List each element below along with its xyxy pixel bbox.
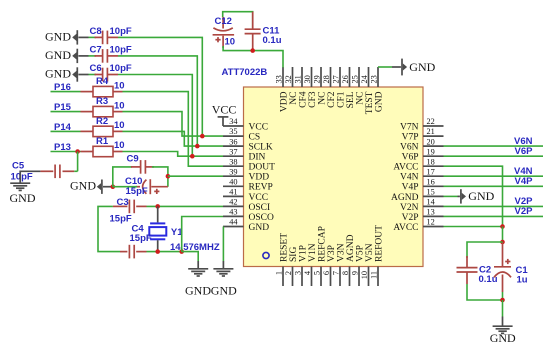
svg-text:29: 29 — [313, 75, 322, 83]
resistor R2 — [81, 130, 94, 132]
pin 26 stub (top) — [349, 67, 351, 87]
svg-text:15: 15 — [427, 188, 435, 197]
svg-text:V7P: V7P — [402, 133, 419, 143]
junction OSCO — [179, 249, 184, 254]
pin 10 stub (bottom) — [368, 267, 370, 287]
ground GND (AGND, bar) — [458, 195, 460, 197]
capacitor C5 — [74, 170, 77, 172]
svg-text:38: 38 — [229, 157, 237, 166]
svg-text:3: 3 — [294, 271, 303, 275]
wire AVCC to ground — [502, 300, 504, 317]
pin 3 stub (bottom) — [301, 267, 303, 287]
svg-text:V1P: V1P — [298, 245, 308, 262]
svg-text:0.1u: 0.1u — [263, 35, 282, 46]
svg-text:REVP: REVP — [249, 183, 273, 193]
svg-text:V4P: V4P — [515, 176, 534, 187]
wire C2 branch top — [467, 242, 503, 258]
pin 19 stub (right) — [423, 155, 444, 157]
junction C11 bottom — [250, 48, 255, 53]
svg-text:GND: GND — [211, 284, 237, 298]
svg-text:NC: NC — [317, 92, 327, 105]
wire C7 to chip column — [118, 56, 197, 146]
wire net V6P (pin 19) — [444, 155, 543, 157]
svg-text:1: 1 — [275, 271, 284, 275]
svg-text:15pF: 15pF — [126, 186, 148, 197]
svg-text:V3P: V3P — [327, 245, 337, 262]
wire net V6N (pin 20) — [444, 145, 543, 147]
pin 36 stub (left) — [223, 145, 244, 147]
ground GND (bottom right, earth) — [502, 317, 504, 327]
svg-text:28: 28 — [322, 75, 331, 83]
svg-text:ATT7022B: ATT7022B — [222, 67, 268, 78]
svg-text:44: 44 — [229, 218, 238, 227]
svg-text:14: 14 — [427, 198, 436, 207]
svg-text:REFOUT: REFOUT — [374, 225, 384, 262]
svg-text:V6N: V6N — [400, 143, 419, 153]
svg-text:12: 12 — [427, 218, 435, 227]
port P15 — [51, 111, 81, 113]
wire AVCC pin 18 down to pin 12 — [444, 166, 503, 226]
svg-text:19: 19 — [427, 147, 435, 156]
svg-text:35: 35 — [229, 127, 237, 136]
wire C3 to pin 42 (OSCI) — [147, 205, 224, 207]
junction DIN/C6 — [190, 154, 195, 159]
ground GND1 (below crystal, earth) — [197, 261, 199, 269]
junction CS/C8 — [200, 134, 205, 139]
svg-text:GND: GND — [249, 223, 270, 233]
svg-text:V7N: V7N — [400, 122, 419, 132]
pin 4 stub (bottom) — [311, 267, 313, 287]
wire loop left and top (to C9) — [113, 167, 132, 187]
svg-text:10: 10 — [114, 120, 125, 131]
svg-text:DOUT: DOUT — [249, 163, 276, 173]
svg-text:20: 20 — [427, 137, 435, 146]
capacitor C8 — [95, 36, 103, 38]
svg-text:VCC: VCC — [249, 122, 269, 132]
wire C8 to chip column — [118, 37, 202, 136]
wire C12-C11 top rail — [223, 12, 253, 29]
svg-text:VDD: VDD — [249, 173, 270, 183]
capacitor C2 — [466, 256, 468, 267]
capacitor C7 — [95, 55, 103, 57]
wire net V2P (pin 13) — [444, 215, 543, 217]
svg-text:SIG: SIG — [289, 247, 299, 262]
svg-text:R4: R4 — [96, 76, 109, 87]
svg-text:40: 40 — [229, 178, 237, 187]
svg-text:C8: C8 — [90, 26, 102, 37]
wire GND to C6 — [89, 74, 97, 76]
svg-text:16: 16 — [427, 178, 435, 187]
svg-text:SCLK: SCLK — [249, 143, 273, 153]
pin 5 stub (bottom) — [320, 267, 322, 287]
pin 41 stub (left) — [223, 195, 244, 197]
svg-text:GND: GND — [374, 91, 384, 112]
svg-text:43: 43 — [229, 208, 237, 217]
pin 2 stub (bottom) — [292, 267, 294, 287]
IC U1 ATT7022B body — [244, 87, 424, 267]
port P13 — [51, 151, 81, 153]
svg-text:10pF: 10pF — [110, 44, 132, 55]
pin 23 stub (top) — [377, 67, 379, 87]
svg-text:GND: GND — [10, 191, 36, 205]
svg-text:AGND: AGND — [346, 234, 356, 262]
svg-text:0.1u: 0.1u — [479, 274, 498, 285]
junction SCLK/C7 — [195, 144, 200, 149]
svg-text:V1N: V1N — [308, 243, 318, 262]
svg-text:5: 5 — [313, 271, 322, 275]
svg-text:10pF: 10pF — [110, 26, 132, 37]
svg-text:GND: GND — [185, 284, 211, 298]
svg-text:V4N: V4N — [400, 173, 419, 183]
pin 22 stub (right) — [423, 125, 444, 127]
svg-text:VCC: VCC — [249, 193, 269, 203]
svg-text:RESET: RESET — [279, 233, 289, 262]
svg-text:25: 25 — [351, 75, 360, 83]
svg-text:31: 31 — [294, 75, 303, 83]
pin 9 stub (bottom) — [358, 267, 360, 287]
wire net V2P (pin 14) — [444, 205, 543, 207]
wire pin 44 (GND) down — [222, 227, 224, 262]
svg-text:11: 11 — [370, 271, 379, 279]
junction P13/C5 — [75, 149, 80, 154]
svg-text:C5: C5 — [12, 160, 25, 171]
pin 7 stub (bottom) — [339, 267, 341, 287]
pin 17 stub (right) — [423, 175, 444, 177]
junction OSCI/crystal — [155, 204, 160, 209]
crystal Y1 — [157, 206, 159, 222]
wire pin 12 to AVCC line — [444, 226, 503, 228]
capacitor C10 (polarized) — [151, 186, 168, 188]
svg-text:VDD: VDD — [279, 91, 289, 112]
pin 39 stub (left) — [223, 175, 244, 177]
ground GND (below C5, earth) — [10, 182, 30, 184]
svg-text:9: 9 — [351, 271, 360, 275]
svg-text:V4P: V4P — [402, 183, 419, 193]
junction AVCC pin 12 — [500, 224, 505, 229]
wire C5 to ground — [20, 171, 40, 183]
wire pin 15 (AGND) to GND — [444, 195, 458, 197]
svg-text:37: 37 — [229, 147, 237, 156]
svg-text:10pF: 10pF — [11, 172, 33, 183]
pin 42 stub (left) — [223, 205, 244, 207]
svg-text:GND: GND — [45, 48, 71, 62]
pin 29 stub (top) — [320, 67, 322, 87]
wire AVCC down to C1 — [502, 227, 504, 244]
junction GND/C10 loop — [111, 184, 116, 189]
svg-text:VCC: VCC — [212, 102, 237, 116]
svg-text:6: 6 — [322, 271, 331, 275]
resistor R3 — [81, 111, 94, 113]
svg-text:V5P: V5P — [355, 245, 365, 262]
svg-text:GND: GND — [490, 331, 516, 345]
svg-text:8: 8 — [341, 271, 350, 275]
pin-1 orientation dot — [263, 252, 269, 258]
wire loop to pin 39 (VDD) — [168, 175, 223, 177]
svg-text:AGND: AGND — [391, 193, 419, 203]
svg-text:GND: GND — [468, 189, 494, 203]
pin 27 stub (top) — [339, 67, 341, 87]
svg-text:10: 10 — [114, 140, 125, 151]
capacitor C12 (polarized) — [222, 17, 224, 29]
svg-text:C9: C9 — [127, 154, 139, 165]
capacitor C3 — [113, 205, 128, 207]
svg-text:22: 22 — [427, 117, 435, 126]
port P16 — [51, 91, 81, 93]
svg-text:REFCAP: REFCAP — [317, 226, 327, 262]
ground GND (C8 row, bar) — [76, 30, 78, 44]
svg-text:2: 2 — [284, 271, 293, 275]
svg-text:GND: GND — [45, 67, 71, 81]
wire pin 23 to GND — [378, 66, 392, 68]
svg-text:DIN: DIN — [249, 153, 266, 163]
svg-text:R1: R1 — [96, 136, 109, 147]
svg-text:10: 10 — [114, 80, 125, 91]
pin 28 stub (top) — [330, 67, 332, 87]
svg-text:R2: R2 — [96, 116, 108, 127]
svg-text:OSCO: OSCO — [249, 213, 274, 223]
pin 44 stub (left) — [223, 226, 244, 228]
svg-text:V5N: V5N — [365, 243, 375, 262]
svg-text:30: 30 — [303, 75, 312, 83]
svg-text:23: 23 — [370, 75, 379, 83]
pin 13 stub (right) — [423, 215, 444, 217]
svg-text:C12: C12 — [215, 16, 232, 27]
svg-text:CF2: CF2 — [327, 91, 337, 108]
pin 6 stub (bottom) — [330, 267, 332, 287]
svg-text:V2N: V2N — [400, 203, 419, 213]
svg-text:17: 17 — [427, 167, 435, 176]
wire net DOUT (P16/R4 to pin 38) — [123, 92, 224, 167]
ground GND (C7 row, bar) — [76, 49, 78, 63]
wire loop right side — [152, 167, 168, 187]
svg-text:NC: NC — [355, 92, 365, 105]
svg-text:AVCC: AVCC — [393, 163, 418, 173]
svg-text:GND: GND — [45, 29, 71, 43]
capacitor C6 — [95, 74, 103, 76]
svg-text:C3: C3 — [117, 197, 129, 208]
wire GND to C8 — [89, 36, 97, 38]
svg-text:V6P: V6P — [515, 146, 534, 157]
wire net V4P (pin 16) — [444, 185, 543, 187]
svg-text:GND: GND — [70, 179, 96, 193]
pin 8 stub (bottom) — [349, 267, 351, 287]
capacitor C9 — [131, 166, 141, 168]
svg-text:41: 41 — [229, 188, 237, 197]
svg-text:SEL: SEL — [346, 91, 356, 108]
pin 14 stub (right) — [423, 205, 444, 207]
svg-text:27: 27 — [332, 75, 341, 83]
wire bottom rail to pin 33 (VDD) — [223, 46, 283, 68]
svg-text:P16: P16 — [54, 82, 71, 93]
power VCC (pin 34) — [218, 116, 229, 118]
svg-text:CF1: CF1 — [336, 91, 346, 108]
svg-text:GND: GND — [409, 60, 435, 74]
pin 11 stub (bottom) — [377, 267, 379, 287]
pin 21 stub (right) — [423, 135, 444, 137]
junction C2 branch bottom — [500, 298, 505, 303]
wire net SCLK (P14/R2 to pin 36) — [123, 131, 224, 146]
svg-text:NC: NC — [289, 92, 299, 105]
ground GND2 (pin 44, earth) — [222, 261, 224, 269]
capacitor C4 — [120, 251, 127, 253]
wire C1 bottom — [502, 292, 504, 300]
svg-text:15pF: 15pF — [110, 214, 132, 225]
svg-text:21: 21 — [427, 127, 435, 136]
ground GND (top right, bar) — [392, 66, 401, 68]
svg-text:24: 24 — [360, 74, 369, 83]
svg-text:10: 10 — [360, 271, 369, 279]
svg-text:AVCC: AVCC — [393, 223, 418, 233]
svg-text:V2P: V2P — [402, 213, 419, 223]
wire pin 43 (OSCO) down to crystal — [182, 217, 223, 252]
wire C6 to chip column — [118, 75, 192, 157]
wire crystal row to ground — [182, 252, 199, 261]
svg-text:P13: P13 — [54, 142, 71, 153]
pin 37 stub (left) — [223, 155, 244, 157]
pin 33 stub (top) — [282, 67, 284, 87]
wire GND dot to C10 — [113, 186, 137, 188]
svg-text:OSCI: OSCI — [249, 203, 271, 213]
pin 43 stub (left) — [223, 215, 244, 217]
svg-text:13: 13 — [427, 208, 435, 217]
svg-text:C7: C7 — [90, 44, 102, 55]
svg-text:42: 42 — [229, 198, 237, 207]
svg-text:V6P: V6P — [402, 153, 419, 163]
svg-text:P15: P15 — [54, 102, 72, 113]
pin 16 stub (right) — [423, 185, 444, 187]
capacitor C1 (polarized) — [502, 242, 504, 266]
pin 32 stub (top) — [292, 67, 294, 87]
wire net CS (P15/R3 to pin 35) — [123, 112, 224, 137]
svg-text:P14: P14 — [54, 122, 72, 133]
wire net DIN (P13/R1 to pin 37) — [123, 152, 224, 157]
pin 24 stub (top) — [368, 67, 370, 87]
svg-text:39: 39 — [229, 167, 237, 176]
pin 1 stub (bottom) — [282, 267, 284, 287]
wire OSCO row — [147, 251, 182, 253]
svg-text:CF4: CF4 — [298, 91, 308, 108]
pin 25 stub (top) — [358, 67, 360, 87]
pin 31 stub (top) — [301, 67, 303, 87]
pin 15 stub (right) — [423, 195, 444, 197]
pin 20 stub (right) — [423, 145, 444, 147]
wire GND to C7 — [89, 55, 97, 57]
pin 38 stub (left) — [223, 165, 244, 167]
pin 34 stub (left) — [223, 125, 244, 127]
resistor R4 — [81, 91, 94, 93]
svg-text:V2P: V2P — [515, 206, 534, 217]
capacitor C11 — [252, 12, 254, 29]
pin 12 stub (right) — [423, 226, 444, 228]
svg-text:10pF: 10pF — [110, 63, 132, 74]
port P14 — [51, 130, 81, 132]
svg-text:V3N: V3N — [336, 243, 346, 262]
ground GND (C6 row, bar) — [76, 67, 78, 81]
svg-text:CF3: CF3 — [308, 91, 318, 108]
pin 40 stub (left) — [223, 185, 244, 187]
svg-text:32: 32 — [284, 75, 293, 83]
svg-text:33: 33 — [275, 75, 284, 83]
svg-text:18: 18 — [427, 157, 435, 166]
junction loop to VDD pin 39 — [166, 174, 171, 179]
wire P13 junction down to C5 — [77, 152, 79, 172]
pin 35 stub (left) — [223, 135, 244, 137]
wire net V4N (pin 17) — [444, 175, 543, 177]
svg-text:7: 7 — [332, 271, 341, 275]
svg-text:36: 36 — [229, 137, 237, 146]
svg-text:R3: R3 — [96, 96, 108, 107]
svg-text:C6: C6 — [90, 63, 102, 74]
svg-text:10: 10 — [114, 100, 125, 111]
svg-text:TEST: TEST — [365, 91, 375, 114]
junction crystal bottom — [155, 249, 160, 254]
junction C2 branch top — [500, 240, 505, 245]
pin 30 stub (top) — [311, 67, 313, 87]
svg-text:34: 34 — [229, 117, 238, 126]
svg-text:26: 26 — [341, 75, 350, 83]
wire C3/C4 left bracket — [98, 206, 120, 251]
wire C2 branch bottom — [467, 284, 503, 300]
svg-text:15pF: 15pF — [130, 233, 152, 244]
svg-text:10: 10 — [225, 37, 236, 48]
svg-text:CS: CS — [249, 133, 261, 143]
svg-text:1u: 1u — [517, 275, 528, 286]
pin 18 stub (right) — [423, 165, 444, 167]
resistor R1 — [81, 151, 94, 153]
